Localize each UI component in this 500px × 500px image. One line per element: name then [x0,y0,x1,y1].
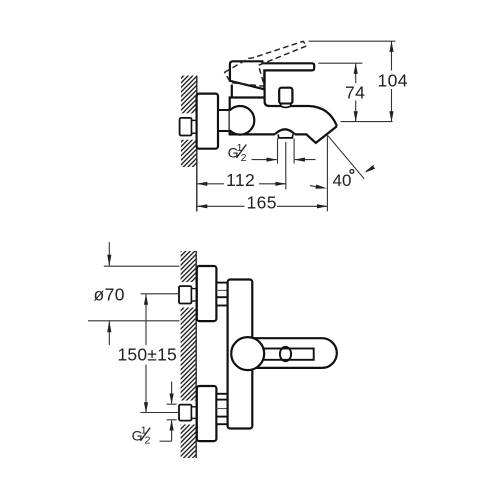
112 dimension [197,183,224,185]
top escutcheon centerline [141,293,180,295]
svg-text:40: 40 [333,171,352,190]
body left edge [229,98,231,135]
body top edge [229,96,265,98]
74 top extension line (from lever top) [318,62,362,64]
diverter knob nut [281,104,291,108]
body D arc (rounded left cap) [230,106,255,135]
lever slot bar [258,349,314,360]
svg-text:112: 112 [226,170,255,190]
spout top curve [265,70,337,126]
wall face line top view (extends down as extension line for 112/165) [196,76,198,212]
inlet nut (in wall) top view [180,118,197,136]
bottom inlet nut bottom view [179,405,192,421]
165 dimension [197,205,245,207]
svg-text:74: 74 [345,82,365,102]
wall (hatched) bottom view [181,251,197,458]
top escutcheon bottom view [197,266,217,321]
74 dimension [355,64,357,84]
connection pipe top view [218,110,230,131]
escutcheon top view [197,94,218,149]
handle raised position (dashed) [225,41,307,86]
150+-15 dimension [145,295,147,346]
dia 70 arrows [108,242,110,266]
40 degree leader arrows [366,165,374,171]
diverter knob [279,88,292,104]
svg-text:165: 165 [247,192,277,212]
spout tip extension line (for 165) [326,134,328,211]
40 degree outlet axis line [328,136,364,179]
svg-text:2: 2 [145,435,151,447]
outlet centerline [285,142,287,190]
svg-text:104: 104 [378,70,408,90]
dia 70 bottom extension line [88,320,180,322]
cartridge cap circle [231,337,264,370]
outlet thread extension lines (G1/2) [277,139,279,164]
wall nut slot (white break in hatch) [179,113,197,139]
wall (hatched) top view [181,76,197,167]
lever capsule bottom view [254,338,337,368]
neck left edge [231,85,233,98]
wall nut slots (white breaks) [179,282,196,308]
bottom connector (ribbed) [216,394,227,424]
mixer body bottom view [228,280,253,429]
svg-text:2: 2 [241,152,247,164]
bottom escutcheon centerline [141,412,180,414]
faucet body + spout (side view) [230,70,337,142]
bottom shared extension line (spout outlet level) [341,121,393,123]
body bottom edge [229,126,337,143]
dia 70 top extension line [104,265,180,267]
handle (solid) [230,61,314,89]
G1/2 arrows (bottom view) [171,382,173,404]
G1/2 dimension arrows (top view) [252,159,277,161]
svg-text:ø70: ø70 [94,285,125,305]
svg-text:150±15: 150±15 [118,345,177,365]
top inlet nut bottom view [179,286,192,303]
G1/2 ticks (bottom view) [167,403,177,405]
wall face line bottom view [195,251,197,458]
top connector (ribbed) [216,283,227,306]
104 top extension line (from raised handle tip) [309,40,396,42]
bottom escutcheon bottom view [197,386,217,441]
lever screw [280,347,291,361]
104 dimension [391,42,393,71]
shower outlet collar [278,134,293,138]
shower outlet dome under spout [275,129,295,134]
